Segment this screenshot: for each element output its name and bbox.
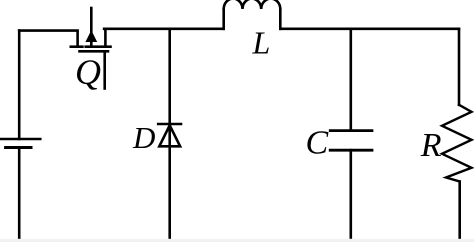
svg-text:L: L bbox=[252, 24, 271, 60]
svg-text:Q: Q bbox=[75, 52, 101, 92]
svg-text:C: C bbox=[306, 125, 329, 162]
svg-text:R: R bbox=[420, 127, 442, 164]
svg-text:D: D bbox=[132, 120, 155, 155]
